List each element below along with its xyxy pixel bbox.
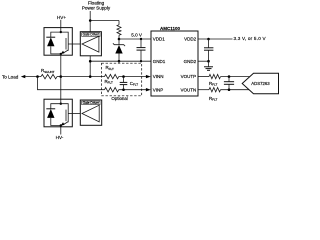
- label HV-: [56, 135, 64, 140]
- IGBT Q1: [61, 32, 81, 54]
- pin GND2: [184, 59, 197, 64]
- svg-text:RSHUNT: RSHUNT: [41, 68, 55, 74]
- wire VDD1 net: [119, 38, 151, 40]
- wire U1 reference to phase node: [89, 56, 91, 77]
- pin VINP: [153, 87, 164, 92]
- svg-text:3.3 V, or 5.0 V: 3.3 V, or 5.0 V: [234, 36, 267, 41]
- svg-text:VDD2: VDD2: [184, 37, 197, 42]
- node gate driver ref at VINN line: [89, 75, 92, 78]
- node Q1 emitter junction: [60, 53, 62, 55]
- IC AMC1100 box: [151, 31, 198, 96]
- resistor RFLT input 1: [105, 74, 147, 78]
- label CFLT: [130, 81, 138, 87]
- label Gate Driver U1: [82, 33, 100, 37]
- svg-text:5.0 V: 5.0 V: [131, 32, 143, 37]
- node load side of shunt: [36, 75, 39, 78]
- label To Load: [2, 74, 19, 79]
- label resistor RFLT input 1: [106, 65, 114, 71]
- node Q2 collector junction: [60, 103, 62, 105]
- capacitor C2 (VDD2 bypass): [204, 39, 213, 61]
- label Optional: [111, 96, 127, 101]
- label AMC1100: [160, 26, 181, 31]
- gate driver U1 box: [80, 32, 101, 56]
- label Floating Power Supply: [82, 1, 111, 11]
- svg-text:VOUTN: VOUTN: [180, 87, 196, 92]
- ADC ADS7263: [242, 73, 278, 93]
- zener diode D1: [113, 39, 125, 61]
- label HV+: [57, 15, 66, 20]
- svg-text:HV-: HV-: [56, 135, 64, 140]
- node output cap top: [228, 75, 231, 78]
- svg-text:ADS7263: ADS7263: [251, 81, 270, 86]
- ground: [204, 61, 213, 70]
- op-amp U2 triangle: [82, 105, 99, 122]
- wire GND1 net: [90, 60, 151, 62]
- resistor R1 (supply dropping): [117, 21, 121, 40]
- resistor RFLT output 2: [198, 88, 249, 92]
- svg-text:Optional: Optional: [111, 96, 127, 101]
- pin VDD2: [184, 37, 197, 42]
- node VDD1 zener junction: [118, 38, 121, 41]
- svg-text:Gate Driver: Gate Driver: [83, 33, 100, 37]
- svg-text:RFLT: RFLT: [209, 81, 217, 87]
- svg-text:AMC1100: AMC1100: [160, 26, 181, 31]
- pin VDD1: [153, 37, 166, 42]
- node C1 top junction: [140, 38, 142, 40]
- pin GND1: [153, 59, 166, 64]
- pin VOUTP: [181, 74, 197, 79]
- wire to load with arrow: [21, 75, 41, 78]
- transistor Q2 module box: [44, 99, 72, 127]
- svg-text:RFLT: RFLT: [105, 79, 113, 85]
- wire GND2 net: [198, 60, 209, 62]
- svg-text:VINP: VINP: [153, 87, 164, 92]
- svg-text:Gate Driver: Gate Driver: [83, 101, 100, 105]
- resistor RSHUNT: [41, 74, 61, 78]
- wire HV+ to transistor Q1: [60, 20, 62, 32]
- op-amp U1 triangle: [82, 36, 99, 52]
- resistor RFLT input 2: [105, 88, 147, 92]
- svg-text:GND1: GND1: [153, 59, 166, 64]
- node VDD2 junction: [207, 38, 210, 41]
- wire Q2 emitter to HV-: [60, 126, 62, 135]
- label 3.3 V, or 5.0 V: [234, 36, 267, 41]
- capacitor C3 (output filter): [224, 77, 234, 90]
- svg-text:GND2: GND2: [184, 59, 197, 64]
- node Q1 collector junction: [60, 31, 62, 33]
- label 5.0 V: [131, 32, 143, 37]
- node zener to GND1: [118, 60, 121, 63]
- gate driver U2 box: [80, 100, 101, 125]
- IGBT Q2: [61, 104, 81, 126]
- capacitor C1 (VDD1 bypass): [137, 39, 146, 61]
- pin VINN: [153, 74, 164, 79]
- label resistor RFLT output 2: [209, 96, 217, 102]
- node GND2 junction: [207, 60, 210, 63]
- wire VDD2 net: [198, 38, 233, 40]
- optional filter dashed box: [102, 63, 142, 96]
- wire floating supply to resistor R1: [90, 20, 119, 22]
- svg-text:VDD1: VDD1: [153, 37, 166, 42]
- pin VOUTN: [180, 87, 196, 92]
- label resistor RFLT input 2: [105, 79, 113, 85]
- wire floating supply down to gate driver U1: [89, 11, 91, 32]
- arrow into VINN pin: [146, 75, 151, 78]
- svg-text:RFLT: RFLT: [209, 96, 217, 102]
- wire phase node to Q2 collector: [60, 77, 62, 104]
- svg-text:VOUTP: VOUTP: [181, 74, 197, 79]
- svg-text:CFLT: CFLT: [130, 81, 138, 87]
- diode D2 (freewheel, Q1): [46, 32, 61, 54]
- label resistor RFLT output 1: [209, 81, 217, 87]
- node CFLT top: [122, 75, 125, 78]
- label resistor RSHUNT: [41, 68, 55, 74]
- wire Q1 emitter to shunt node: [60, 54, 62, 77]
- node C1 bottom junction: [140, 60, 142, 62]
- diode D3 (freewheel, Q2): [46, 104, 61, 126]
- transistor Q1 module box: [44, 28, 72, 56]
- node phase side of shunt: [60, 75, 63, 78]
- node CFLT bottom: [122, 88, 125, 91]
- wire VINP tap from load side: [38, 77, 105, 90]
- node GND1 tie to gate driver reference: [89, 60, 92, 63]
- capacitor CFLT: [120, 77, 128, 90]
- arrow into VINP pin: [146, 88, 151, 91]
- svg-text:To Load: To Load: [2, 74, 19, 79]
- node Q2 emitter junction: [60, 124, 62, 126]
- label Gate Driver U2: [82, 101, 100, 105]
- wire VINN net (shunt to filter): [61, 76, 105, 78]
- svg-text:Power Supply: Power Supply: [82, 5, 111, 10]
- svg-text:RFLT: RFLT: [106, 65, 114, 71]
- node floating supply junction: [89, 19, 92, 22]
- node output cap bottom: [228, 88, 231, 91]
- resistor RFLT output 1: [198, 74, 250, 78]
- svg-text:HV+: HV+: [57, 15, 66, 20]
- svg-text:VINN: VINN: [153, 74, 164, 79]
